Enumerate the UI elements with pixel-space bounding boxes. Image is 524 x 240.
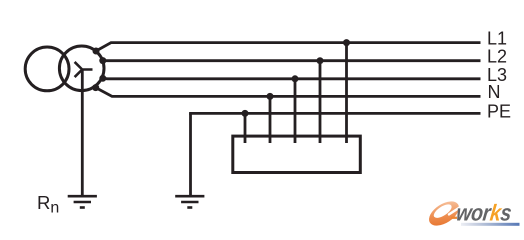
transformer T1 primary winding bbox=[25, 47, 69, 91]
wire tap PE down bbox=[244, 113, 247, 143]
wye symbol (star point) bbox=[75, 62, 93, 77]
wire neutral to earth bbox=[81, 70, 84, 197]
ground electrode PE bbox=[175, 196, 204, 207]
wire L1 bbox=[96, 43, 481, 51]
node junction L1 bbox=[343, 39, 350, 46]
wire tap N down bbox=[269, 96, 272, 143]
node junction L2 bbox=[317, 57, 324, 64]
e-works logo bbox=[425, 193, 520, 230]
wire L2 bbox=[103, 59, 481, 62]
node secondary N terminal bbox=[92, 84, 99, 91]
node junction L3 bbox=[292, 75, 299, 82]
wire N bbox=[96, 88, 481, 97]
node junction PE bbox=[242, 110, 249, 117]
wire L3 bbox=[103, 77, 481, 80]
svg-text:N: N bbox=[488, 82, 501, 102]
node secondary L3 terminal bbox=[99, 75, 106, 82]
node secondary L2 terminal bbox=[99, 57, 106, 64]
svg-text:L1: L1 bbox=[487, 29, 507, 49]
wire PE down to earth bbox=[189, 113, 192, 196]
wire tap L3 down bbox=[294, 79, 297, 143]
wire PE horizontal bbox=[191, 113, 481, 114]
transformer T1 secondary winding bbox=[59, 46, 104, 91]
wire tap L1 down bbox=[345, 43, 348, 143]
svg-text:works: works bbox=[455, 200, 513, 226]
node junction N bbox=[267, 93, 274, 100]
ground electrode Rn (transformer earth) bbox=[68, 196, 97, 207]
load box bbox=[233, 136, 360, 172]
svg-text:L2: L2 bbox=[487, 47, 507, 67]
wire tap L2 down bbox=[319, 61, 322, 143]
svg-text:PE: PE bbox=[487, 102, 511, 122]
node secondary L1 terminal bbox=[93, 48, 100, 55]
